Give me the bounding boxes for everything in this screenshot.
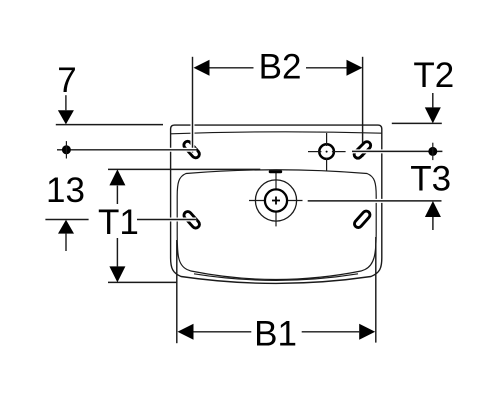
B1 dimension line with arrows	[178, 324, 376, 340]
bowl outer lip curve	[194, 274, 358, 281]
B1 left extension line	[176, 240, 178, 343]
bowl-right slot	[358, 215, 366, 224]
faucet hole crosshair	[308, 133, 346, 171]
T2 arrow	[425, 93, 441, 123]
right fixing dot	[428, 143, 437, 160]
drain center cross	[272, 197, 280, 205]
bowl-left slot	[188, 215, 196, 224]
B2 right extension line (under slot)	[362, 57, 364, 157]
T1 dimension double arrow	[109, 169, 125, 282]
svg-text:T3: T3	[410, 160, 451, 199]
svg-text:13: 13	[46, 171, 85, 210]
B2 dimension line with arrows	[194, 60, 363, 76]
deck back curve	[171, 132, 382, 134]
right fixing hole leader line	[352, 149, 442, 153]
faucet hole circle	[319, 144, 334, 159]
T3 drain axis line	[308, 199, 442, 203]
B2 left extension line	[191, 57, 195, 153]
dim 7 arrow	[58, 95, 74, 124]
faucet hole center dot	[326, 151, 328, 153]
top-right fixing slot	[358, 145, 367, 154]
left fixing hole leader line	[57, 148, 197, 152]
drain crosshair	[249, 172, 303, 226]
svg-text:B1: B1	[254, 315, 297, 354]
rim top extension line left	[56, 124, 163, 126]
dim 13 extent line	[45, 219, 88, 221]
top-left fixing slot	[188, 145, 196, 154]
svg-text:B2: B2	[259, 48, 302, 87]
svg-text:T1: T1	[98, 203, 139, 242]
rim top extension line right	[392, 122, 442, 124]
T1 top extent line	[108, 168, 260, 170]
T3 up arrow	[425, 201, 441, 230]
svg-text:7: 7	[57, 61, 76, 100]
inner bowl outline	[177, 170, 376, 280]
B1 right extension line	[375, 237, 377, 343]
T1 leader line to bowl slot	[137, 218, 196, 222]
left fixing dot	[62, 141, 71, 158]
T1 bottom extent line	[108, 281, 177, 283]
washbasin outer rim outline	[171, 125, 382, 283]
overflow slot mark	[269, 170, 283, 173]
svg-text:T2: T2	[413, 56, 454, 95]
drain inner circle	[265, 189, 287, 211]
dim 13 up arrow	[58, 220, 74, 251]
drain outer circle	[255, 180, 296, 221]
